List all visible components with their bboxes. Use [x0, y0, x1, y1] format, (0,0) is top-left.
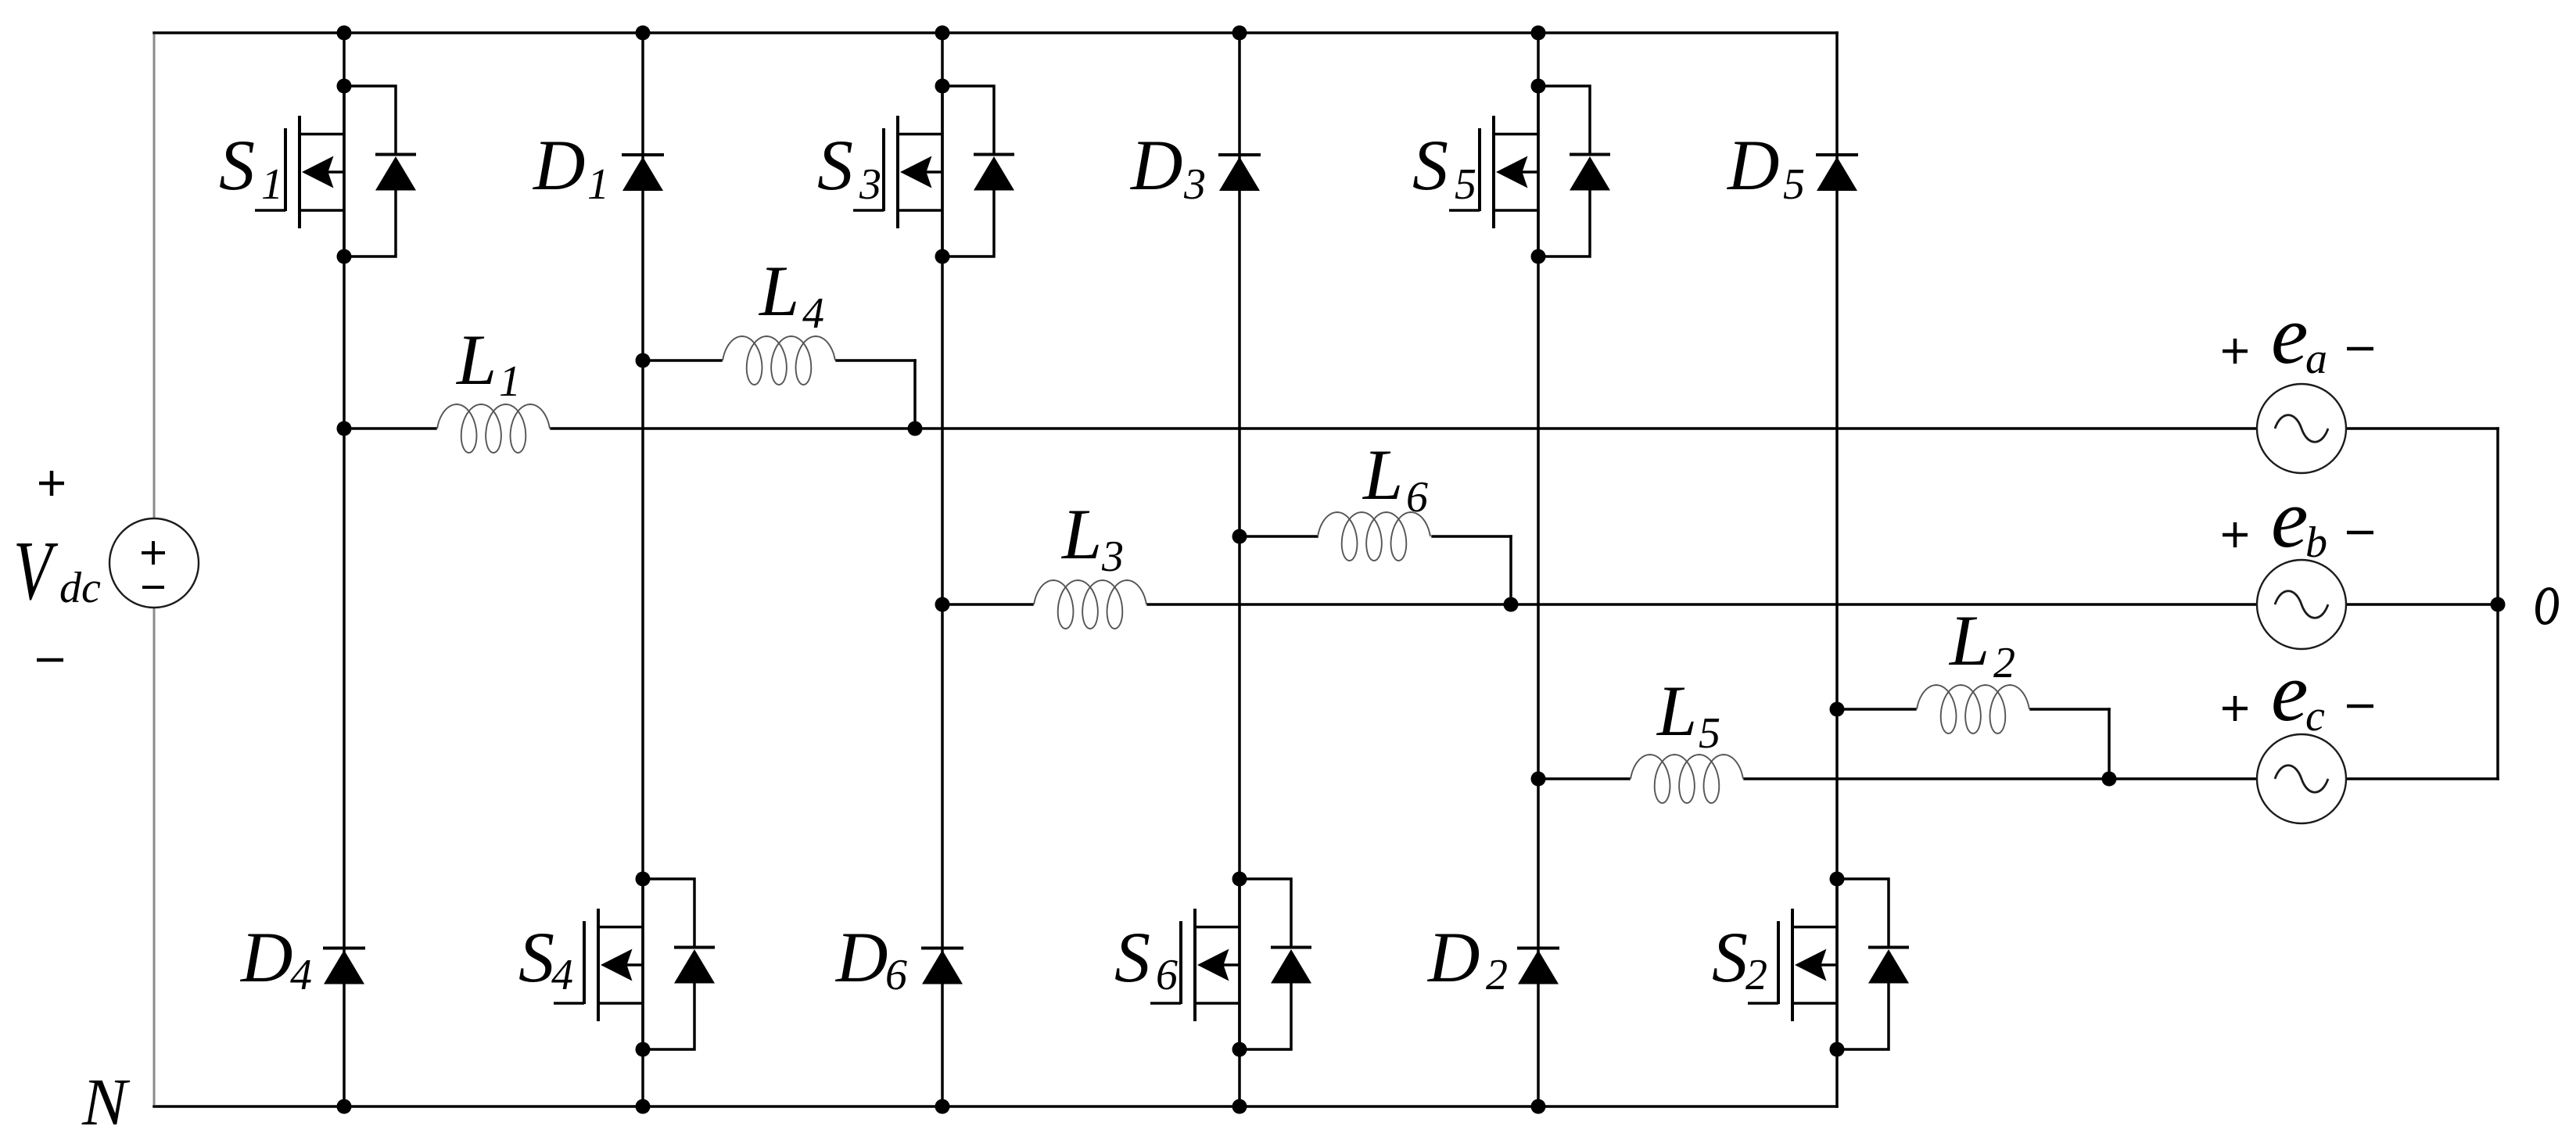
svg-text:4: 4 — [802, 289, 824, 338]
wire vertical leg 3 (S3/D6) — [941, 33, 944, 1106]
svg-text:S: S — [817, 125, 853, 205]
svg-text:o: o — [2534, 555, 2560, 641]
svg-text:a: a — [2305, 335, 2327, 383]
label minus of ec — [2347, 705, 2373, 708]
wire top rail (positive DC bus) — [154, 31, 1837, 34]
svg-text:4: 4 — [290, 951, 312, 999]
wire L6 branch horizontal — [1240, 535, 1511, 538]
label minus of ea — [2347, 347, 2373, 351]
transistor S3 (MOSFET with body diode) — [853, 79, 1014, 264]
svg-text:3: 3 — [859, 160, 881, 209]
inductor L6 — [1318, 512, 1430, 561]
node dot L4 drop on phase a — [908, 421, 923, 436]
node dot bottom rail leg 1 — [337, 1099, 352, 1114]
node dot top rail leg 2 — [636, 26, 651, 41]
svg-text:e: e — [2271, 473, 2309, 565]
wire vertical leg 5 (S5/D2) — [1537, 33, 1540, 1106]
label plus of eb — [2223, 522, 2248, 547]
svg-text:L: L — [758, 251, 799, 331]
wire left DC link lower (gray) — [153, 563, 156, 1105]
wire vertical leg 6 (D5/S2) — [1835, 33, 1839, 1106]
svg-text:N: N — [81, 1064, 131, 1139]
diode D2 — [1517, 949, 1559, 984]
svg-text:6: 6 — [885, 951, 907, 999]
node dot phase b at leg 3 — [935, 597, 950, 612]
node dot bottom rail leg 4 — [1232, 1099, 1247, 1114]
wire L6 branch drop — [1509, 536, 1512, 604]
svg-text:5: 5 — [1699, 709, 1720, 758]
wire right return bus — [2496, 429, 2499, 779]
node dot top rail leg 3 — [935, 26, 950, 41]
coil gap L3 — [1034, 601, 1147, 608]
label plus of ea — [2223, 339, 2248, 364]
diode D6 — [921, 949, 963, 984]
wire L4 branch drop — [913, 360, 917, 429]
node dot L4 tap on leg 2 — [636, 353, 651, 368]
wire phase b line — [942, 603, 2498, 606]
node dot phase a at leg 1 — [337, 421, 352, 436]
diode D5 — [1816, 155, 1858, 191]
svg-text:S: S — [219, 125, 255, 205]
wire phase a line — [344, 427, 2498, 430]
svg-text:e: e — [2271, 647, 2309, 739]
svg-text:S: S — [1712, 917, 1748, 997]
coil gap L2 — [1917, 706, 2030, 712]
svg-text:e: e — [2271, 289, 2309, 382]
AC source eb — [2257, 560, 2346, 649]
svg-text:L: L — [1362, 435, 1403, 515]
inductor L1 — [437, 404, 550, 453]
svg-text:L: L — [455, 320, 497, 400]
coil gap L1 — [437, 425, 551, 432]
svg-text:S: S — [1412, 125, 1448, 205]
inductor L5 — [1631, 755, 1743, 803]
label minus of eb — [2347, 531, 2373, 535]
svg-text:D: D — [532, 125, 585, 205]
svg-text:L: L — [1656, 671, 1697, 751]
node dot bottom rail leg 3 — [935, 1099, 950, 1114]
AC source ea — [2257, 384, 2346, 473]
svg-text:D: D — [1426, 917, 1480, 997]
wire vertical leg 1 (S1/D4) — [343, 33, 346, 1106]
svg-text:dc: dc — [59, 564, 101, 612]
svg-text:2: 2 — [1745, 951, 1767, 999]
wire left DC link upper (gray) — [153, 34, 156, 563]
diode D3 — [1218, 155, 1261, 191]
wire bottom rail (node N) — [154, 1105, 1837, 1108]
transistor S4 (MOSFET with body diode) — [554, 872, 715, 1057]
diode D4 — [323, 949, 365, 984]
node dot top rail leg 1 — [337, 26, 352, 41]
node o dot on return bus — [2491, 597, 2506, 612]
svg-text:D: D — [1726, 125, 1779, 205]
node dot L6 drop on phase b — [1504, 597, 1519, 612]
svg-text:1: 1 — [261, 160, 283, 209]
coil gap L6 — [1318, 533, 1432, 540]
node dot bottom rail leg 5 — [1531, 1099, 1546, 1114]
inductor L2 — [1917, 685, 2029, 733]
svg-text:5: 5 — [1455, 160, 1476, 209]
node dot bottom rail leg 2 — [636, 1099, 651, 1114]
svg-text:6: 6 — [1406, 473, 1428, 522]
node dot top rail leg 4 — [1232, 26, 1247, 41]
svg-text:3: 3 — [1101, 533, 1124, 581]
svg-text:D: D — [239, 917, 292, 997]
node dot top rail leg 5 — [1531, 26, 1546, 41]
wire L2 branch horizontal — [1837, 708, 2109, 711]
node dot L6 tap on leg 4 — [1232, 529, 1247, 544]
svg-text:L: L — [1948, 601, 1989, 680]
inductor L3 — [1034, 580, 1146, 629]
svg-text:6: 6 — [1156, 951, 1178, 999]
svg-text:L: L — [1060, 494, 1102, 574]
diode D1 — [622, 155, 664, 191]
wire vertical leg 4 (D3/S6) — [1238, 33, 1241, 1106]
svg-text:1: 1 — [587, 160, 609, 209]
transistor S6 (MOSFET with body diode) — [1150, 872, 1311, 1057]
wire L4 branch horizontal — [643, 359, 915, 362]
transistor S2 (MOSFET with body diode) — [1748, 872, 1909, 1057]
label plus of Vdc (outer) — [39, 471, 64, 496]
svg-text:1: 1 — [499, 357, 521, 406]
node dot L2 drop on phase c — [2102, 772, 2117, 787]
wire phase c line — [1538, 777, 2498, 780]
AC source ec — [2257, 734, 2346, 823]
node dot phase c at leg 5 — [1531, 772, 1546, 787]
coil gap L5 — [1631, 776, 1744, 782]
inductor L4 — [723, 336, 835, 385]
svg-text:4: 4 — [551, 951, 573, 999]
svg-text:2: 2 — [1486, 951, 1508, 999]
svg-text:c: c — [2305, 692, 2325, 741]
svg-text:3: 3 — [1183, 160, 1206, 209]
transistor S5 (MOSFET with body diode) — [1449, 79, 1610, 264]
transistor S1 (MOSFET with body diode) — [255, 79, 416, 264]
svg-text:V: V — [13, 524, 59, 618]
voltage source Vdc — [109, 518, 199, 608]
wire vertical leg 2 (D1/S4) — [641, 33, 644, 1106]
svg-text:D: D — [1129, 125, 1182, 205]
label minus of Vdc (outer) — [37, 658, 63, 662]
wire L2 branch drop — [2108, 709, 2111, 779]
node dot L2 tap on leg 6 — [1830, 702, 1845, 717]
svg-text:S: S — [1114, 917, 1150, 997]
svg-text:5: 5 — [1783, 160, 1805, 209]
label plus of ec — [2223, 696, 2248, 721]
svg-text:D: D — [834, 917, 888, 997]
svg-text:S: S — [518, 917, 554, 997]
svg-text:2: 2 — [1993, 639, 2015, 687]
coil gap L4 — [723, 357, 836, 364]
svg-text:b: b — [2305, 518, 2327, 567]
